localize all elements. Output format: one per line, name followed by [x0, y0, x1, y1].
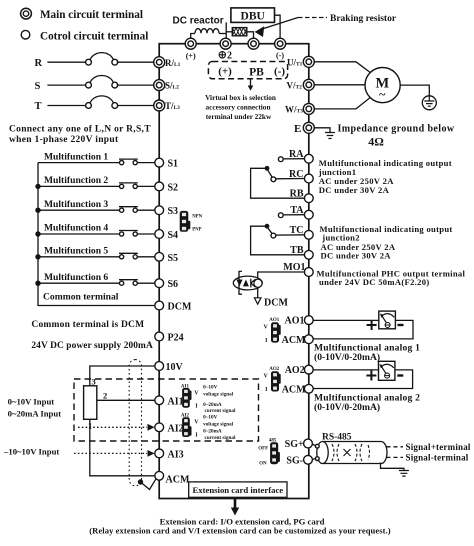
analog input dashed box: [74, 379, 259, 441]
main terminal W/T3: [303, 103, 314, 114]
dotted wire to AI2: [78, 426, 147, 428]
svg-text:(+): (+): [218, 66, 232, 78]
svg-text:S: S: [35, 81, 41, 92]
control terminal S6: [155, 279, 164, 288]
wire S3 row: [38, 209, 155, 211]
wire DBU right lead to terminal (-): [275, 15, 281, 39]
svg-text:2: 2: [103, 391, 107, 401]
svg-text:Braking resistor: Braking resistor: [330, 14, 397, 24]
main terminal (+): [185, 38, 196, 49]
control terminal MO1: [304, 268, 313, 277]
svg-text:Common terminal: Common terminal: [43, 292, 119, 303]
control terminal 10V: [155, 362, 164, 371]
svg-text:Extension card interface: Extension card interface: [192, 485, 283, 495]
control terminal AO1: [304, 316, 313, 325]
wire AO2 to meter2: [313, 369, 378, 371]
switch contact R: [86, 53, 118, 66]
junction dot row6: [35, 281, 40, 286]
main terminal T/L3: [154, 100, 165, 111]
wire S6 row: [38, 282, 155, 284]
svg-text:(0-10V/0-20mA): (0-10V/0-20mA): [314, 352, 380, 363]
svg-text:Multifunction 4: Multifunction 4: [44, 223, 108, 234]
junction dot row4: [35, 231, 40, 236]
svg-text:2: 2: [227, 51, 232, 62]
wire pot bottom to ACM: [90, 419, 155, 476]
control terminal S3: [155, 206, 164, 215]
svg-text:terminal under 22kw: terminal under 22kw: [206, 112, 272, 121]
wire E to ground: [314, 128, 330, 133]
switch contact S: [86, 76, 118, 89]
control terminal AI1: [155, 396, 164, 405]
meter2 plus sign: [366, 371, 376, 381]
shielded cable dotted loop: [129, 360, 141, 486]
optocoupler U2: [233, 276, 262, 290]
wire TC row: [276, 234, 305, 236]
control terminal ACM2: [304, 335, 313, 344]
svg-text:ACM: ACM: [282, 335, 306, 346]
switch S2: [119, 183, 138, 189]
PB virtual dashed box: [208, 62, 287, 79]
note analog1: [314, 342, 420, 363]
svg-text:ACM: ACM: [282, 384, 306, 395]
svg-text:R: R: [35, 58, 43, 69]
wire 10V to potentiometer: [90, 366, 155, 386]
svg-text:S4: S4: [168, 230, 179, 241]
control terminal SG-: [304, 455, 313, 464]
junction dot row3: [35, 208, 40, 213]
svg-text:SG-: SG-: [286, 455, 303, 466]
svg-text:10V: 10V: [166, 362, 184, 373]
control terminal S1: [155, 158, 164, 167]
control terminal RB: [304, 194, 313, 203]
main terminal V/T2: [303, 79, 314, 90]
svg-text:0~20mA: 0~20mA: [203, 429, 222, 435]
dotted wire to AI3: [74, 452, 147, 454]
wire pot wiper to AI1: [97, 399, 155, 401]
svg-text:Multifunction 5: Multifunction 5: [44, 246, 108, 257]
wire S2 row: [38, 185, 155, 187]
svg-text:ACM: ACM: [166, 475, 190, 486]
svg-text:Multifunction 6: Multifunction 6: [44, 272, 108, 283]
note 0~10V voltage signal (AI1): [203, 384, 236, 414]
braking resistor pointer arrowhead: [255, 26, 265, 37]
optocoupler bracket: [239, 271, 242, 294]
svg-text:accessory connection: accessory connection: [205, 103, 270, 112]
legend control circuit terminal symbol: [21, 30, 30, 39]
dashed wire signal-: [387, 456, 404, 458]
svg-text:ON: ON: [259, 462, 267, 467]
wire S to switch: [47, 84, 86, 86]
svg-text:S3: S3: [168, 206, 179, 217]
DBU braking unit box: [231, 8, 275, 23]
wire SG- into cable: [312, 458, 315, 461]
main terminal S/L2: [154, 80, 165, 91]
svg-text:AI1: AI1: [168, 396, 184, 407]
protective earth symbol (circled ground): [422, 96, 436, 110]
svg-text:0~10V: 0~10V: [203, 415, 217, 421]
svg-text:Signal+terminal: Signal+terminal: [406, 442, 471, 452]
svg-text:0~20mA Input: 0~20mA Input: [8, 409, 62, 419]
svg-text:DCM: DCM: [264, 297, 288, 308]
svg-text:–10~10V Input: –10~10V Input: [3, 447, 59, 457]
svg-text:RS-485: RS-485: [322, 432, 352, 442]
svg-text:AI2: AI2: [168, 423, 184, 434]
svg-text:current signal: current signal: [205, 435, 236, 441]
wire reactor to node P+: [219, 33, 226, 35]
braking resistor RB1 (hatched box): [226, 28, 254, 39]
control terminal RC: [304, 174, 313, 183]
wire motor to earth: [400, 85, 429, 96]
svg-text:(0-10V/0-20mA): (0-10V/0-20mA): [314, 402, 380, 413]
dashed wire signal+: [387, 446, 404, 448]
main terminal R/L1: [154, 57, 165, 68]
control terminal DCM: [155, 301, 164, 310]
control terminal AO2: [304, 365, 313, 374]
svg-text:voltage signal: voltage signal: [203, 391, 234, 397]
svg-text:~: ~: [379, 87, 386, 101]
control terminal TA: [304, 210, 313, 219]
meter2 minus sign: [397, 374, 403, 376]
relay2 contact TA: [278, 213, 283, 218]
note: virtual box text: [205, 93, 276, 121]
legend main circuit terminal symbol: [21, 8, 32, 19]
svg-text:(-): (-): [276, 51, 284, 60]
control terminal S5: [155, 252, 164, 261]
wire T to switch: [47, 105, 86, 107]
svg-text:voltage signal: voltage signal: [203, 422, 234, 428]
svg-text:S6: S6: [168, 279, 179, 290]
svg-text:S1: S1: [168, 159, 179, 170]
control terminal AI3: [155, 449, 164, 458]
wire S4 row: [38, 233, 155, 235]
wire MO1 to optocoupler: [258, 272, 305, 298]
arrow from PB box to note: [248, 80, 254, 91]
switch contact T: [86, 96, 118, 109]
svg-text:Connect any one of L,N or R,S,: Connect any one of L,N or R,S,T: [9, 125, 151, 135]
braking resistor pointer line: [261, 18, 299, 30]
svg-text:Common terminal is DCM: Common terminal is DCM: [31, 320, 144, 330]
wire AO1 to meter1: [313, 319, 379, 321]
svg-text:1: 1: [88, 421, 92, 431]
svg-text:AO1: AO1: [285, 315, 305, 326]
note 0~10V voltage signal (AI2): [203, 415, 236, 441]
motor M: [365, 68, 400, 103]
wire switch to terminal S/L2: [117, 84, 154, 86]
NPN PNP jumper block J1: [180, 211, 191, 232]
ground symbol at E: [325, 133, 335, 139]
control terminal ACM3: [304, 384, 313, 393]
wire cable shield to ground: [381, 463, 404, 471]
svg-text:E: E: [294, 123, 301, 135]
svg-text:(Relay extension card and V/I: (Relay extension card and V/I extension …: [89, 526, 391, 536]
svg-text:OFF: OFF: [258, 447, 268, 452]
AO1 jumper block: [271, 322, 281, 342]
DC reactor inductor L1: [195, 29, 219, 34]
svg-text:DC reactor: DC reactor: [173, 16, 224, 27]
control terminal AI2: [155, 423, 164, 432]
svg-text:RB: RB: [290, 189, 304, 200]
relay1 contact RA: [278, 157, 283, 162]
svg-text:(+): (+): [186, 51, 196, 60]
svg-text:V: V: [264, 373, 269, 379]
inverter main box: [159, 44, 309, 499]
control terminal S2: [155, 182, 164, 191]
svg-text:DC under 30V 2A: DC under 30V 2A: [319, 185, 390, 195]
svg-text:DCM: DCM: [168, 302, 192, 313]
relay2 armature: [268, 228, 273, 234]
control terminal S4: [155, 230, 164, 239]
svg-text:Signal-terminal: Signal-terminal: [406, 453, 469, 463]
junction dot row5: [35, 254, 40, 259]
svg-text:T: T: [35, 101, 42, 112]
svg-text:Main circuit terminal: Main circuit terminal: [40, 9, 143, 21]
arrowhead AI3: [148, 450, 155, 457]
svg-text:DC under 30V 2A: DC under 30V 2A: [321, 250, 392, 260]
meter1 plus sign: [367, 320, 377, 330]
relay2 wire to TB: [251, 226, 305, 255]
main terminal (-): [275, 38, 286, 49]
wire switch to terminal T/L3: [117, 105, 154, 107]
extension card interface box: [189, 482, 287, 497]
svg-text:Multifunction 1: Multifunction 1: [44, 151, 108, 162]
svg-text:Multifunction 3: Multifunction 3: [44, 199, 108, 210]
DCM down arrow: [254, 298, 261, 304]
svg-text:DBU: DBU: [241, 10, 266, 22]
control terminal P24: [155, 332, 164, 341]
main terminal E: [303, 122, 314, 133]
svg-text:under 24V DC 50mA(F2.20): under 24V DC 50mA(F2.20): [319, 277, 429, 287]
wire DBU left lead to terminal P+: [225, 22, 227, 39]
svg-text:0~10V Input: 0~10V Input: [8, 396, 55, 406]
wire meter1 to ACM: [313, 320, 413, 339]
svg-text:PB: PB: [249, 67, 264, 79]
note relay1 description: [318, 158, 452, 195]
svg-text:S2: S2: [168, 182, 179, 193]
control terminal TB: [304, 250, 313, 259]
wire RA row: [283, 158, 304, 160]
485 termination jumper block: [270, 442, 280, 464]
AO2 jumper block: [271, 371, 281, 391]
svg-text:current signal: current signal: [205, 408, 236, 414]
control terminal RA: [304, 154, 313, 163]
wire V to motor: [314, 84, 365, 86]
main terminal PB: [248, 38, 259, 49]
control terminal SG+: [304, 439, 313, 448]
wire meter2 to ACM: [313, 370, 412, 389]
relay2 contact TC: [271, 233, 276, 238]
arrowhead AI2: [148, 424, 155, 431]
svg-text:Impedance ground below: Impedance ground below: [338, 123, 455, 134]
relay1 wire to RB: [251, 168, 305, 198]
svg-text:V: V: [194, 419, 199, 425]
switch S5: [119, 253, 138, 259]
control terminal ACM: [155, 471, 164, 480]
svg-text:P24: P24: [168, 333, 184, 344]
label +2: [219, 51, 232, 62]
svg-text:NPN: NPN: [192, 215, 202, 220]
RS-485 shielded cable: [315, 442, 387, 464]
analog meter2: [379, 361, 395, 380]
svg-text:Multifunction 2: Multifunction 2: [44, 175, 108, 186]
svg-text:V: V: [194, 391, 199, 397]
wire TA row: [283, 214, 304, 216]
control terminal TC: [304, 230, 313, 239]
relay2 pivot dot: [265, 224, 270, 229]
wire R to switch: [47, 61, 86, 63]
svg-text:PNP: PNP: [192, 227, 201, 232]
svg-text:(-): (-): [274, 66, 285, 78]
svg-text:0~10V: 0~10V: [203, 384, 217, 390]
cable shield dot: [138, 479, 143, 484]
note: connect any one: [9, 125, 151, 145]
svg-text:24V DC power supply 200mA: 24V DC power supply 200mA: [31, 341, 153, 351]
wire switch to terminal R/L1: [117, 61, 154, 63]
wire S1 row: [38, 162, 155, 164]
svg-text:V: V: [264, 325, 269, 331]
main terminal U/T1: [303, 56, 314, 67]
svg-text:Cotrol circuit terminal: Cotrol circuit terminal: [40, 30, 148, 42]
ground symbol RS-485: [399, 471, 409, 477]
wire shield to ACM: [141, 479, 157, 490]
switch S1: [119, 159, 138, 165]
svg-text:AO2: AO2: [285, 365, 305, 376]
wire terminal(+) to DC reactor: [191, 34, 195, 40]
wire W to motor: [314, 97, 370, 109]
svg-text:Virtual box is selection: Virtual box is selection: [205, 93, 276, 102]
switch S3: [119, 207, 138, 213]
analog meter1: [379, 311, 396, 329]
svg-text:SG+: SG+: [285, 439, 304, 450]
main terminal P+2: [220, 38, 231, 49]
potentiometer VR1: [84, 386, 97, 420]
relay1 pivot dot: [265, 166, 270, 171]
multifunction bus wire: [38, 163, 155, 306]
switch S6: [119, 280, 138, 286]
braking resistor pointer dashed line: [298, 17, 327, 19]
svg-text:S5: S5: [168, 253, 179, 264]
junction dot row2: [35, 184, 40, 189]
note analog2: [314, 392, 420, 413]
wire S5 row: [38, 256, 155, 258]
svg-text:AI3: AI3: [168, 449, 184, 460]
AI2 jumper block: [182, 417, 191, 437]
svg-text:TB: TB: [290, 245, 304, 256]
wire U to motor: [314, 62, 370, 73]
relay1 armature: [268, 170, 273, 178]
svg-text:4Ω: 4Ω: [368, 135, 384, 149]
AI1 jumper block: [182, 388, 191, 408]
meter1 minus sign: [398, 324, 404, 326]
switch S4: [119, 231, 138, 237]
note MO1 description: [317, 268, 466, 287]
wire SG+ into cable: [312, 444, 315, 445]
svg-text:3: 3: [92, 377, 96, 387]
note relay2 description: [320, 224, 453, 261]
wire RC row: [276, 178, 305, 180]
svg-text:when 1-phase 220V input: when 1-phase 220V input: [9, 135, 119, 145]
relay1 contact RC: [271, 177, 276, 182]
arrow to bottom note: [231, 499, 239, 516]
